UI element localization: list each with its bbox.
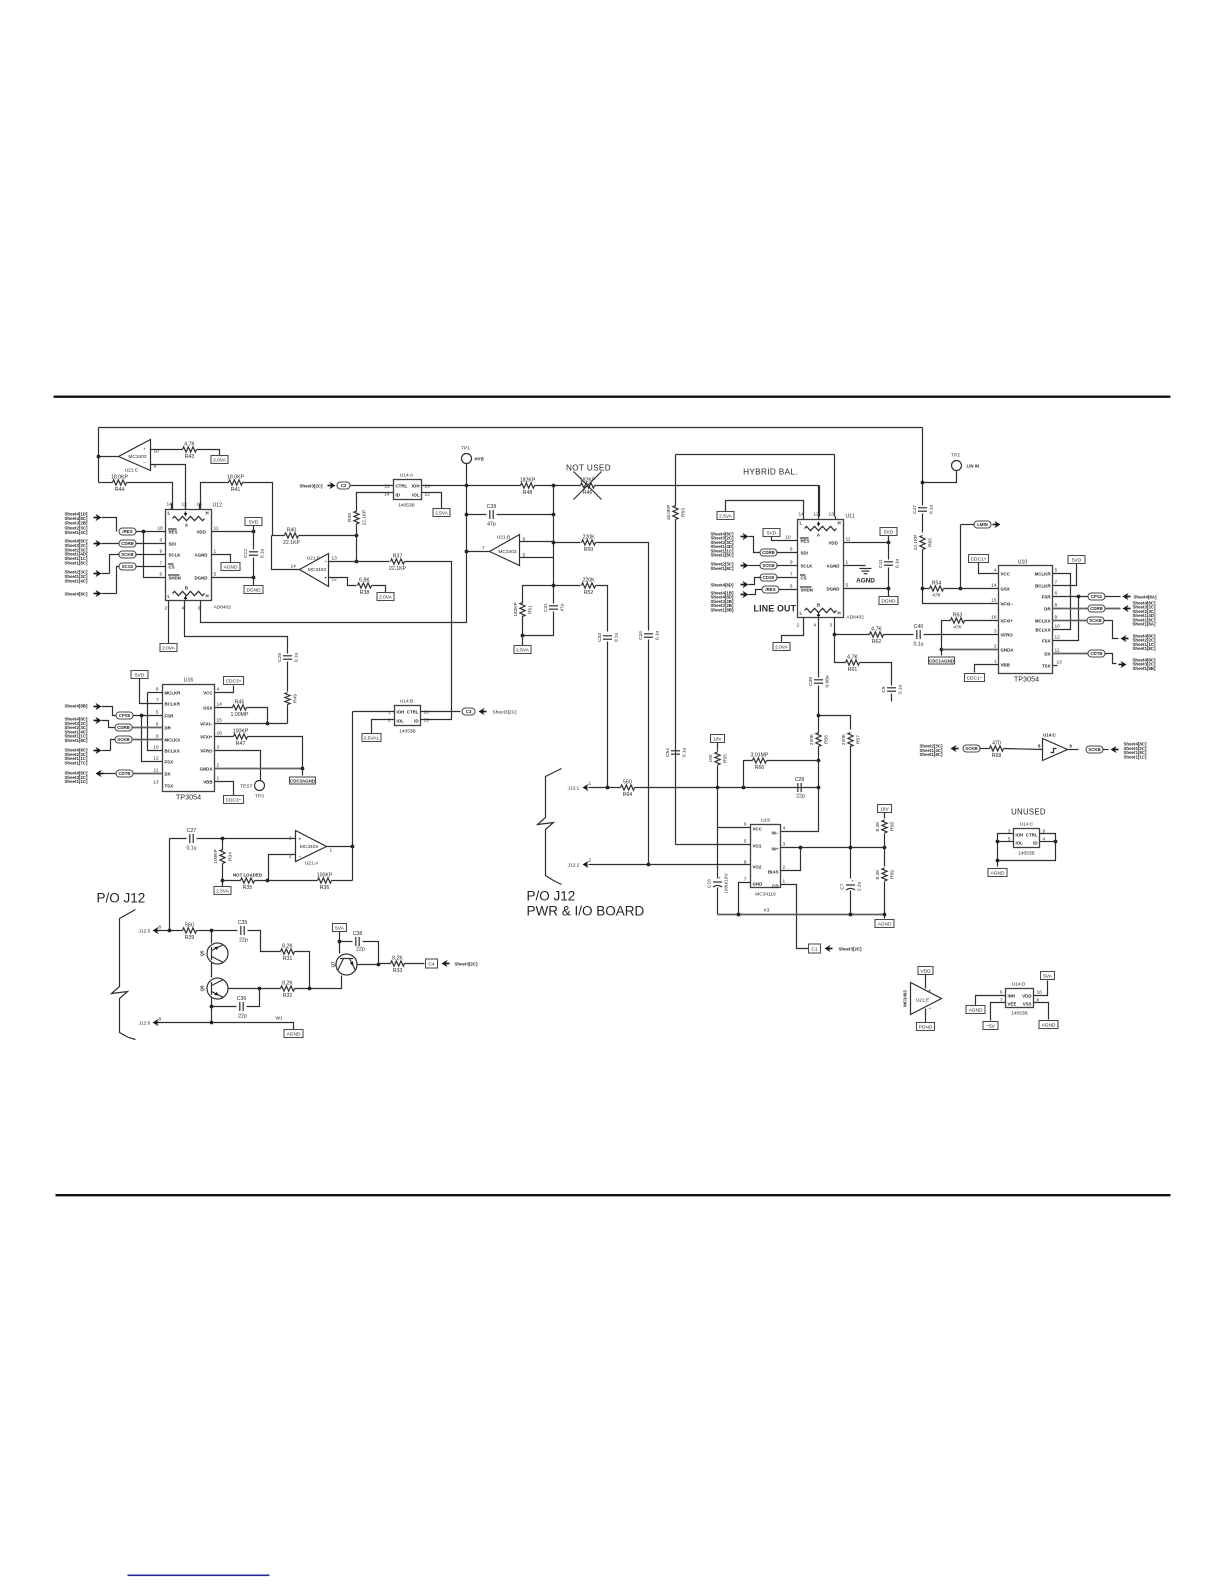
wire R32 to Q7	[295, 976, 342, 989]
transistor Q6	[207, 978, 228, 999]
wire 18V to R58	[884, 813, 886, 819]
svg-text:18V: 18V	[880, 807, 889, 813]
svg-text:14: 14	[217, 702, 223, 708]
svg-text:47p: 47p	[487, 522, 496, 528]
net label CDTB right	[1088, 650, 1105, 657]
IC U19 MC34119 amp	[751, 825, 781, 888]
svg-text:Q6: Q6	[200, 985, 205, 991]
svg-text:VO2: VO2	[753, 865, 762, 870]
svg-text:CDC1+: CDC1+	[971, 557, 987, 563]
power label 2.0VA under U11	[773, 643, 790, 651]
svg-text:AGND: AGND	[287, 1032, 301, 1038]
wire hybrid loop right to U11 pin13	[834, 455, 836, 517]
sheet arrow into CDS0	[741, 581, 749, 588]
IC U16 TP3054 codec	[163, 685, 215, 792]
test point TP3 TEST	[255, 781, 265, 791]
wire arrow to CDTB U16	[104, 773, 117, 775]
resistor R37 22.1KP	[389, 553, 407, 572]
wire arrow to /RES oval U11	[749, 590, 763, 595]
svg-text:8: 8	[159, 1017, 162, 1023]
svg-text:/RES: /RES	[122, 529, 132, 534]
svg-text:Sheet4[8A]: Sheet4[8A]	[1134, 595, 1157, 600]
wire U14A IOL pin12 to 2.5VA	[422, 493, 442, 509]
net label SCKB at U11	[760, 562, 777, 569]
svg-text:C3: C3	[466, 709, 472, 714]
svg-text:CDC1−: CDC1−	[967, 676, 983, 682]
svg-text:13: 13	[425, 484, 431, 490]
svg-text:0.1u: 0.1u	[929, 505, 935, 515]
wire J12:2 to U19 VO2	[589, 864, 751, 866]
node BIAS tie	[799, 846, 803, 850]
wire R31 to Q6 output node	[295, 952, 310, 989]
power label 2.5VA at R51	[514, 646, 531, 654]
wire C29 to R49	[287, 662, 289, 692]
svg-text:GND: GND	[753, 882, 763, 887]
node R34 top	[221, 837, 225, 841]
wire VFXI+ pin16 to R47	[215, 736, 234, 738]
node GNDA junction	[940, 648, 944, 652]
sheet arrow into SCKB U16	[94, 747, 102, 754]
wire U12 pin13 to R41	[201, 483, 229, 510]
wire C27 rail down to J12:5	[169, 839, 171, 931]
bottom horizontal rule	[56, 1194, 1171, 1196]
svg-text:Sheet1[8B]: Sheet1[8B]	[1133, 666, 1156, 671]
svg-text:3: 3	[289, 836, 292, 842]
wire R46 to U11 wiper	[595, 485, 820, 487]
svg-text:RES: RES	[169, 530, 178, 535]
wire U12 pin3 to U21B output rail	[201, 552, 467, 623]
svg-text:0.1u: 0.1u	[260, 549, 266, 559]
svg-text:B: B	[185, 586, 188, 591]
wire U14C pin5	[998, 841, 1014, 843]
svg-text:H: H	[838, 611, 841, 616]
svg-text:C12: C12	[243, 549, 249, 558]
capacitor C41 0.1u	[878, 559, 901, 569]
node J12:1 junction on R56 rail	[817, 786, 821, 790]
ground label AGND at U14C	[988, 869, 1007, 877]
svg-text:C28: C28	[795, 777, 805, 783]
wire GNDA label stub U16	[302, 769, 304, 776]
svg-text:H: H	[206, 511, 209, 516]
ground label CDC3AGND	[290, 777, 316, 784]
svg-text:GNDA: GNDA	[1001, 648, 1015, 653]
svg-text:R40: R40	[287, 527, 297, 533]
svg-text:Sheet1[8A]: Sheet1[8A]	[1133, 622, 1156, 627]
IC U14:D 14053B power section	[1006, 989, 1034, 1008]
node R35/R36 inverting	[266, 879, 270, 883]
resistor R32 8.2K	[281, 980, 295, 999]
svg-text:L: L	[168, 511, 171, 516]
svg-text:MC34119: MC34119	[755, 892, 776, 898]
svg-text:U10: U10	[1018, 560, 1028, 566]
wire GNDA pin2 U16	[215, 768, 303, 770]
sheet arrow into SCKB	[94, 570, 102, 577]
wire arrow to CDRB oval U11	[749, 537, 761, 553]
svg-text:10: 10	[1055, 624, 1061, 630]
wire to R35	[223, 880, 241, 882]
svg-text:U21:D: U21:D	[307, 556, 321, 562]
pin 13 stub U12	[199, 504, 201, 510]
U12 left pin labels	[168, 529, 181, 581]
wire Q6 emitter to R32	[229, 988, 281, 990]
svg-text:2.5VA: 2.5VA	[216, 889, 230, 895]
net label C1	[809, 944, 821, 953]
svg-text:B: B	[817, 603, 820, 608]
power label 5VA at Q7	[333, 924, 347, 932]
svg-text:TP3054: TP3054	[176, 793, 201, 802]
svg-text:560: 560	[185, 922, 194, 928]
wire R37 to U14B ID pin15	[405, 562, 452, 720]
node TP2 junction	[921, 481, 925, 485]
svg-text:ID: ID	[414, 719, 418, 724]
net label CDRB at U11	[760, 549, 777, 556]
node U14C pin4 tie	[1054, 840, 1058, 844]
svg-text:AGND: AGND	[969, 1008, 983, 1014]
wire U11 VDD pin11	[844, 542, 887, 544]
svg-text:C31: C31	[543, 603, 549, 612]
svg-text:Sheet1[8C]: Sheet1[8C]	[65, 738, 88, 743]
svg-text:CDRB: CDRB	[1090, 606, 1103, 611]
wire U14C CTRL pin9 tie	[998, 834, 1056, 861]
svg-text:Sheet1[1C]: Sheet1[1C]	[65, 779, 88, 784]
svg-text:9: 9	[160, 549, 163, 555]
wire C33 rail to J12:1	[607, 642, 609, 788]
svg-text:PGND: PGND	[919, 1025, 933, 1031]
capacitor C15 100u/16V electrolytic	[707, 872, 730, 893]
wire SCKB drop	[110, 555, 120, 574]
svg-text:CDC3+: CDC3+	[226, 679, 242, 685]
svg-text:2.2u: 2.2u	[857, 882, 863, 892]
wire DX pin11	[1053, 653, 1089, 655]
svg-text:C39: C39	[487, 504, 497, 510]
svg-text:6: 6	[160, 572, 163, 578]
svg-text:13: 13	[1057, 660, 1063, 666]
svg-text:470: 470	[992, 740, 1001, 746]
capacitor C40 0.1u	[913, 624, 923, 648]
wire to U21C output	[99, 456, 119, 458]
IC U12 AD8402 digital pot	[166, 510, 212, 601]
op-amp U21:B MC3403	[490, 535, 520, 566]
net label SCKB buffer in	[963, 745, 980, 752]
ground label CDC1AGND	[929, 657, 955, 664]
svg-text:DX: DX	[1044, 652, 1050, 657]
svg-text:HYBRID BAL.: HYBRID BAL.	[743, 468, 798, 477]
capacitor C27 0.1u	[186, 828, 196, 852]
wire U12 pin2 down	[168, 601, 170, 644]
wire U21E to PGND	[925, 1009, 927, 1023]
svg-text:8: 8	[744, 860, 747, 866]
svg-text:18.0KP: 18.0KP	[666, 505, 672, 521]
capacitor C34 0.1u	[638, 631, 661, 641]
node GSX junction	[959, 587, 963, 591]
capacitor C54 0.1u	[665, 748, 688, 758]
wire arrow to CDRB oval	[102, 543, 120, 545]
svg-text:VCC: VCC	[203, 691, 213, 696]
ground bus X3	[718, 914, 885, 916]
svg-text:C2: C2	[341, 483, 347, 488]
resistor R64 560	[621, 779, 635, 798]
svg-text:0.68u: 0.68u	[825, 675, 831, 687]
svg-text:R33: R33	[393, 968, 403, 974]
node VDD C12	[252, 530, 256, 534]
wire CDRB to U12 pin8	[136, 543, 166, 545]
sheet refs at CDTB	[1133, 658, 1156, 671]
capacitor C12 0.1u	[243, 549, 266, 559]
U11 left pin labels	[800, 538, 813, 593]
wire R40 left	[272, 535, 285, 537]
wire U11 pin4 down	[818, 618, 820, 678]
svg-text:5: 5	[1055, 568, 1058, 574]
wire CDS0 to U11 pin7	[777, 577, 798, 579]
wire pin3 to R62	[835, 634, 870, 636]
wire SCKB to U11 pin9	[777, 565, 798, 567]
svg-text:VFRO: VFRO	[200, 749, 213, 754]
svg-text:12: 12	[153, 756, 159, 762]
wire TP2 stub	[923, 471, 957, 483]
wire down to U11 pin12	[819, 486, 821, 517]
wire R68 to buffer	[1004, 749, 1043, 750]
svg-text:VBB: VBB	[203, 780, 212, 785]
svg-text:6.8K: 6.8K	[359, 577, 370, 583]
svg-text:TP1: TP1	[461, 446, 470, 452]
svg-text:VEE: VEE	[1008, 1002, 1017, 1007]
wire R44 to U12 pin14	[127, 483, 173, 510]
resistor R45 1.00MP	[231, 699, 249, 718]
wire LMIN to GSX	[960, 525, 962, 589]
wire R35 node to 2.5VA	[222, 881, 224, 887]
wire to 2.5VA stub	[522, 636, 524, 646]
svg-text:6: 6	[1055, 591, 1058, 597]
svg-text:W1: W1	[276, 1016, 284, 1022]
svg-text:5: 5	[846, 583, 849, 589]
svg-text:CS: CS	[169, 565, 175, 570]
svg-text:5VA: 5VA	[1043, 974, 1053, 980]
power label 5VA at U14D	[1041, 972, 1055, 980]
svg-text:SCKB: SCKB	[117, 737, 129, 742]
resistor R47 100KP	[233, 728, 249, 747]
wire C36 to Q6 node	[247, 989, 260, 1007]
wire U21D output pin14 feedback	[272, 536, 300, 570]
blue footer underline	[128, 1575, 270, 1577]
U11 right pin labels	[827, 541, 840, 592]
svg-text:VFXI−: VFXI−	[200, 722, 213, 727]
wire R45 to VFXI- node	[247, 708, 268, 724]
svg-text:R65: R65	[928, 538, 934, 547]
wire C2 to U14A pin11	[351, 485, 394, 487]
net label LMIN	[974, 521, 991, 528]
wire SCKB out stub	[1103, 749, 1109, 751]
wire C35 to R31	[248, 931, 281, 952]
power label 2.0VA under U12	[160, 644, 177, 652]
svg-text:DR: DR	[165, 726, 172, 731]
svg-text:11: 11	[214, 526, 219, 532]
wire J12:5 left	[159, 930, 183, 932]
wire R53 rail down to VO1	[675, 520, 677, 845]
wire C27 to U21A pin3	[197, 838, 296, 840]
node R45/VFXI-	[266, 722, 270, 726]
wire R59 to bus	[884, 882, 886, 919]
wire U14B CTRL pin10 to C3	[421, 711, 461, 713]
ground symbol AGND at U11	[860, 569, 872, 574]
svg-text:5VD: 5VD	[249, 520, 259, 526]
capacitor C31 47p	[543, 603, 566, 612]
svg-text:U21:B: U21:B	[497, 535, 510, 541]
svg-text:IOL: IOL	[1016, 841, 1024, 846]
wire R39 to U14A ID pin14	[357, 493, 394, 512]
svg-text:DGND: DGND	[195, 576, 208, 581]
sheet arrow into /RES	[94, 514, 102, 521]
svg-text:11: 11	[385, 484, 390, 490]
svg-text:3.01MP: 3.01MP	[751, 752, 769, 758]
svg-text:AGND: AGND	[224, 565, 238, 571]
wire FSR pin6	[1053, 596, 1088, 598]
wire R43 to 2.0VA	[197, 450, 220, 456]
wire 5VA to Q7	[339, 932, 341, 954]
svg-text:U14:A: U14:A	[400, 473, 414, 479]
resistor R43 4.7K	[183, 441, 197, 460]
svg-text:8.2K: 8.2K	[282, 943, 293, 949]
op-amp U21:E MC3403	[911, 983, 942, 1015]
wire BCLKR pin7 to 5VD	[1053, 564, 1077, 586]
resistor R49 vertical	[285, 693, 299, 705]
wire CDRB out	[1105, 608, 1121, 610]
svg-text:AGND: AGND	[878, 922, 892, 928]
connector arrow J12:2	[583, 861, 589, 868]
resistor R48 182KP	[520, 477, 536, 496]
svg-text:1: 1	[214, 549, 217, 555]
svg-text:12: 12	[182, 502, 188, 508]
svg-text:18.0KP: 18.0KP	[227, 474, 245, 480]
node bus right end	[883, 913, 887, 917]
sheet refs at SCKB buffer out	[1124, 742, 1147, 760]
svg-text:1: 1	[846, 560, 849, 566]
sheet arrow into SCKB buffer	[951, 745, 959, 752]
svg-text:U14:D: U14:D	[1012, 982, 1026, 988]
svg-text:5: 5	[214, 572, 217, 578]
svg-text:220K: 220K	[582, 577, 595, 583]
svg-text:VDD: VDD	[829, 541, 838, 546]
capacitor C30 22p at Q7	[353, 931, 363, 946]
svg-text:11: 11	[846, 537, 851, 543]
svg-text:UNUSED: UNUSED	[1011, 808, 1046, 817]
capacitor C36 22p	[237, 996, 247, 1011]
power label CDC1+	[969, 555, 989, 563]
resistor R40 22.1KP	[283, 527, 301, 546]
svg-text:GNDA: GNDA	[200, 767, 214, 772]
node FSR/FSX tie	[1077, 595, 1081, 599]
wire /RES to U11 pin6	[779, 589, 798, 591]
wire R41 to R40 node	[243, 483, 273, 536]
svg-text:9: 9	[790, 560, 793, 566]
svg-text:22.1KP: 22.1KP	[362, 510, 368, 526]
resistor R66 3.01MP	[751, 752, 769, 771]
power label 5VD at U16	[131, 671, 148, 679]
svg-text:Sheet3[2C]: Sheet3[2C]	[839, 947, 862, 952]
svg-text:Sheet1[4C]: Sheet1[4C]	[65, 578, 88, 583]
IC U10 TP3054 codec	[999, 566, 1053, 674]
IC U14:B 14053B mux section	[395, 706, 421, 726]
wire R58 to R59	[884, 834, 886, 867]
svg-text:+: +	[299, 837, 302, 842]
sheet refs group for SCKB at U11	[711, 562, 734, 571]
svg-text:R68: R68	[992, 753, 1002, 759]
svg-text:Sheet4[8B]: Sheet4[8B]	[65, 704, 88, 709]
svg-text:NOT USED: NOT USED	[566, 464, 611, 473]
svg-text:ID: ID	[1033, 841, 1037, 846]
svg-text:13: 13	[153, 780, 159, 786]
wire TP1 stub	[466, 464, 468, 486]
svg-text:2.0VA: 2.0VA	[379, 595, 393, 601]
svg-text:SCKB: SCKB	[1088, 747, 1100, 752]
svg-text:MC3403: MC3403	[300, 844, 318, 850]
wire U21B pin6	[520, 541, 554, 543]
ground label AGND at U14D left	[966, 1006, 985, 1014]
svg-text:R56: R56	[824, 735, 830, 744]
svg-text:−: −	[929, 1006, 932, 1011]
wire pin6 node to R50	[554, 542, 581, 544]
svg-text:CDS0: CDS0	[763, 575, 775, 580]
svg-text:5VD: 5VD	[1072, 558, 1082, 564]
sheet refs group for SCKB	[65, 570, 88, 584]
wire R66 to IN- rail	[767, 760, 819, 762]
svg-text:TP3054: TP3054	[1014, 675, 1039, 684]
svg-text:J12:2: J12:2	[568, 863, 580, 869]
svg-text:IOL: IOL	[397, 719, 405, 724]
resistor R34 100KP vertical	[213, 849, 234, 863]
pin 14 stub U12	[171, 504, 173, 510]
wire 18V rail down	[717, 766, 719, 879]
wire U12 VDD pin11	[212, 531, 254, 533]
U16 right pin labels	[200, 691, 214, 785]
node C33 rail end	[606, 786, 610, 790]
svg-text:C15: C15	[707, 879, 713, 888]
net label SCKB left	[119, 551, 136, 558]
svg-text:CDRB: CDRB	[762, 550, 775, 555]
svg-text:DX: DX	[165, 772, 171, 777]
sheet refs group for CDRB	[65, 539, 88, 566]
svg-text:IOH: IOH	[1016, 833, 1024, 838]
node C34 rail end	[647, 863, 651, 867]
power label 2.5VA at U14A	[433, 509, 450, 517]
svg-text:C7: C7	[840, 883, 846, 889]
node C38/R57 branch	[817, 714, 821, 718]
power label 5VD at U10	[1068, 556, 1085, 564]
svg-text:LIN IN: LIN IN	[967, 464, 980, 469]
wire to C35	[212, 930, 238, 932]
wire inverting node to U21A pin2	[269, 855, 296, 881]
svg-text:8: 8	[790, 547, 793, 553]
wire R48 to R46	[535, 485, 581, 487]
pin 13 TSX stub U10	[1053, 665, 1058, 667]
svg-text:8: 8	[160, 538, 163, 544]
wire U21B pin5	[520, 557, 554, 559]
net label CDS0 at U11	[760, 574, 777, 581]
wire CDTB to DX pin11	[133, 773, 163, 775]
svg-text:R45: R45	[235, 699, 245, 705]
svg-text:FSX: FSX	[1042, 639, 1051, 644]
node C36 tap	[258, 987, 262, 991]
wire U21A output pin1	[327, 846, 353, 848]
node R66 drop at J12:1	[742, 786, 746, 790]
svg-text:R57: R57	[856, 735, 862, 744]
resistor R56 220K vertical	[809, 733, 830, 747]
IC U14:A 14053B mux section	[394, 480, 422, 500]
svg-text:10: 10	[785, 535, 791, 541]
svg-text:TEST: TEST	[240, 784, 252, 790]
svg-text:−: −	[143, 462, 146, 467]
wire SCKB to arrow	[1104, 621, 1119, 639]
op-amp U21:D MC3403	[300, 554, 329, 587]
